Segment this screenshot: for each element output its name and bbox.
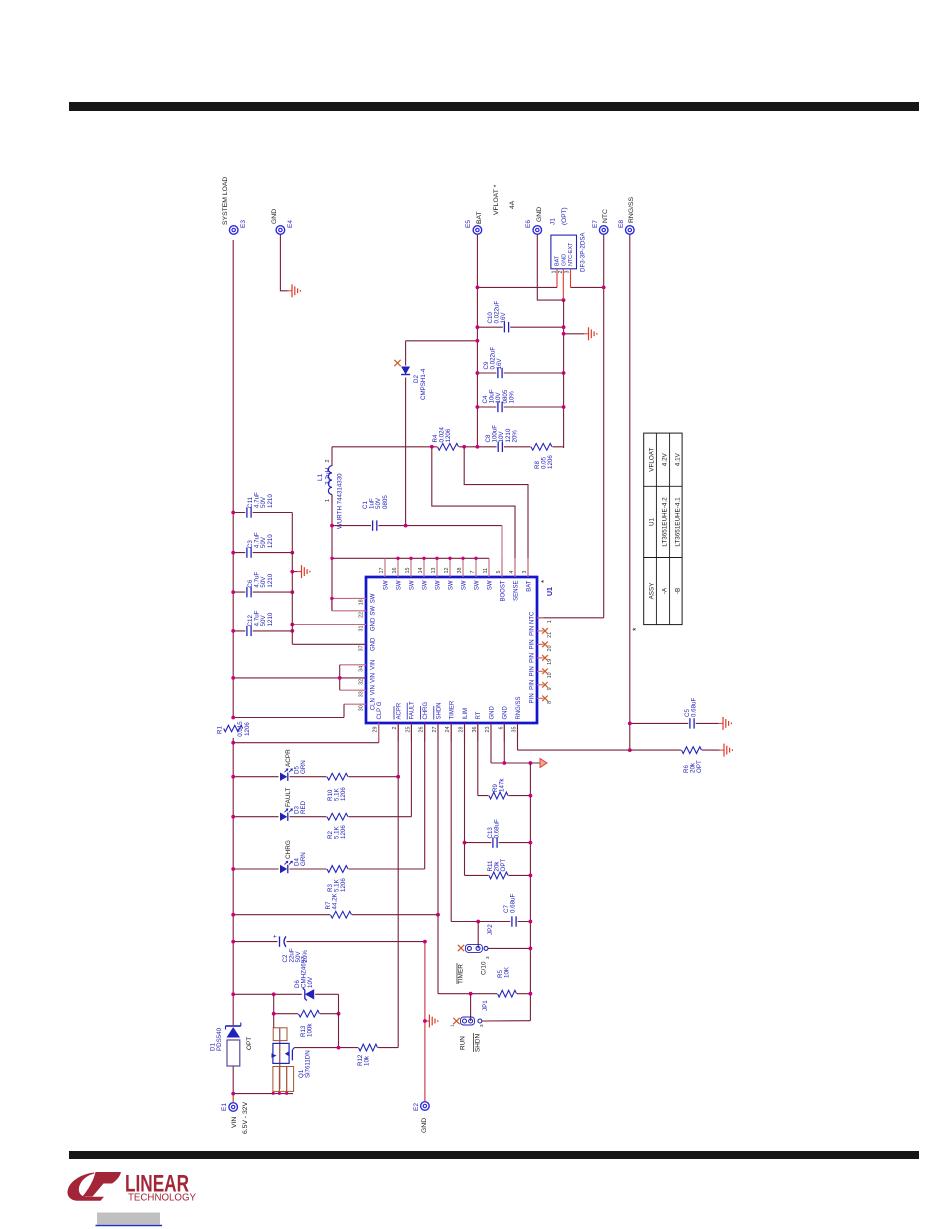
svg-text:PIN: PIN	[530, 666, 536, 676]
jumper JP2	[477, 922, 479, 949]
svg-text:+: +	[273, 934, 279, 938]
svg-text:GND: GND	[489, 706, 495, 720]
svg-text:4.2V: 4.2V	[662, 452, 669, 466]
svg-text:44.2K: 44.2K	[332, 892, 339, 909]
wire SW pin 12 stub	[449, 558, 451, 577]
wire SW pin 17 stub	[384, 558, 386, 577]
svg-text:1206: 1206	[340, 878, 347, 892]
wire R13/D6 bottom link	[338, 994, 340, 1047]
wire BOOST route	[501, 526, 503, 577]
wire SW pin 38 stub	[462, 558, 464, 577]
wire E4 to ground	[280, 234, 287, 291]
svg-text:5: 5	[496, 571, 502, 574]
ground at C5	[719, 722, 724, 724]
resistor R11	[465, 874, 531, 876]
capacitor C10	[477, 326, 563, 328]
wire input gnd rail	[291, 513, 293, 645]
wire SW node	[331, 495, 333, 611]
capacitor C7	[451, 921, 530, 923]
no-connect pin 9	[537, 684, 544, 686]
terminal E7 NTC	[599, 226, 608, 235]
wire SW pins 18/22	[331, 598, 333, 610]
svg-text:1206: 1206	[244, 722, 251, 736]
resistor R8	[531, 442, 553, 451]
svg-text:LT3651EUHE-4.1: LT3651EUHE-4.1	[675, 497, 682, 547]
svg-text:*: *	[540, 580, 549, 583]
svg-text:CHRG: CHRG	[423, 702, 429, 720]
svg-text:38: 38	[457, 568, 463, 574]
resistor R1	[223, 724, 243, 732]
svg-text:SW: SW	[383, 580, 389, 590]
svg-text:E5: E5	[465, 220, 472, 228]
svg-text:SW: SW	[487, 580, 493, 590]
svg-text:Si7611DN: Si7611DN	[305, 1050, 312, 1078]
svg-text:1206: 1206	[340, 787, 347, 801]
svg-text:RUN: RUN	[460, 1036, 467, 1050]
svg-text:10%: 10%	[508, 391, 515, 404]
svg-text:30: 30	[359, 705, 365, 711]
wire BAT pin route	[464, 447, 528, 577]
LED D4 / resistor R3 CHRG branch	[233, 868, 425, 870]
logo LT mark	[67, 1172, 121, 1201]
svg-text:GND: GND	[503, 706, 509, 720]
no-connect X on JP2	[458, 945, 464, 951]
svg-text:PIN: PIN	[530, 693, 536, 703]
wire CHRG net	[424, 723, 426, 869]
terminal E4 GND	[276, 226, 285, 235]
svg-text:32: 32	[359, 679, 365, 685]
svg-text:27: 27	[432, 727, 438, 733]
svg-text:25: 25	[405, 727, 411, 733]
svg-text:20: 20	[547, 645, 553, 651]
svg-text:R1: R1	[217, 725, 224, 733]
wire CLN pin 30	[344, 703, 366, 705]
svg-text:SYSTEM LOAD: SYSTEM LOAD	[222, 177, 229, 225]
capacitor C3	[233, 552, 292, 554]
svg-text:SW: SW	[409, 580, 415, 590]
ground on E2 rail	[425, 1020, 430, 1022]
no-connect X on D2	[394, 360, 400, 366]
svg-text:10k: 10k	[364, 1055, 371, 1066]
inductor L1	[331, 447, 333, 466]
svg-text:E2: E2	[413, 1103, 420, 1111]
svg-text:(OPT): (OPT)	[561, 207, 568, 225]
svg-text:RNG/SS: RNG/SS	[628, 196, 635, 223]
svg-text:22: 22	[359, 612, 365, 618]
svg-text:RT: RT	[476, 711, 482, 719]
wire ILIM net	[464, 723, 466, 875]
svg-text:0.68uF: 0.68uF	[691, 698, 698, 717]
svg-text:10V: 10V	[307, 976, 314, 988]
ground at R6	[720, 749, 725, 751]
svg-text:C/10: C/10	[481, 961, 488, 975]
svg-text:20%: 20%	[511, 430, 518, 443]
connector J1 DF3-3P-2DSA	[551, 235, 577, 269]
svg-text:8: 8	[547, 701, 553, 704]
no-connect pin 19	[537, 657, 544, 659]
capacitor C4	[477, 406, 563, 408]
svg-text:RED: RED	[300, 800, 307, 814]
wire SW bus	[332, 557, 489, 559]
resistor R4	[437, 442, 459, 451]
svg-text:23: 23	[485, 727, 491, 733]
svg-text:GRN: GRN	[300, 852, 307, 866]
svg-text:U1: U1	[648, 517, 655, 526]
svg-text:OPT: OPT	[500, 859, 507, 872]
svg-text:E8: E8	[618, 220, 625, 228]
wire TIMER net	[450, 723, 452, 922]
svg-text:1206: 1206	[547, 455, 554, 469]
ground at E4	[288, 290, 293, 292]
svg-text:CHRG: CHRG	[285, 840, 292, 859]
svg-text:GND: GND	[561, 254, 567, 266]
svg-text:E1: E1	[221, 1103, 228, 1111]
svg-text:1206: 1206	[340, 825, 347, 839]
svg-text:LT3651EUHE-4.2: LT3651EUHE-4.2	[662, 497, 669, 547]
svg-text:2: 2	[325, 460, 331, 463]
node BAT rail junction	[476, 445, 480, 449]
svg-text:GND: GND	[421, 1118, 428, 1133]
svg-text:VFLOAT: VFLOAT	[648, 448, 655, 472]
svg-text:13: 13	[431, 568, 437, 574]
svg-text:16V: 16V	[496, 358, 503, 370]
svg-text:31: 31	[359, 626, 365, 632]
wire VIN pins 34/32/33	[340, 664, 366, 666]
svg-text:GND: GND	[371, 637, 377, 651]
no-connect X on JP1	[453, 1018, 459, 1024]
wire SW pin 7 stub	[475, 558, 477, 577]
wire SENSE route	[432, 447, 515, 577]
svg-text:VIN: VIN	[231, 1117, 238, 1128]
svg-text:J1: J1	[550, 218, 557, 225]
svg-text:GND: GND	[371, 617, 377, 631]
svg-text:ACPR: ACPR	[285, 749, 292, 767]
svg-text:SW: SW	[435, 580, 441, 590]
svg-text:3.3uH: 3.3uH	[325, 467, 332, 485]
svg-text:BAT: BAT	[555, 255, 561, 266]
capacitor C8	[497, 441, 504, 453]
terminal E2 GND	[421, 1102, 430, 1111]
svg-text:PIN: PIN	[530, 626, 536, 636]
svg-text:BOOST: BOOST	[500, 580, 506, 601]
svg-text:TECHNOLOGY: TECHNOLOGY	[128, 1193, 196, 1204]
svg-text:DF3-3P-2DSA: DF3-3P-2DSA	[580, 232, 587, 272]
svg-text:VIN: VIN	[371, 660, 377, 670]
wire GND pin 37	[292, 643, 366, 645]
svg-text:9: 9	[547, 687, 553, 690]
svg-text:3: 3	[479, 1024, 484, 1027]
resistor R12 gate	[294, 1047, 398, 1049]
svg-text:FAULT: FAULT	[285, 787, 292, 807]
wire CLP pin 29	[378, 723, 380, 743]
svg-text:CMPSH1-4: CMPSH1-4	[420, 368, 427, 400]
capacitor C12	[233, 630, 292, 632]
svg-text:34: 34	[359, 666, 365, 672]
svg-text:SW: SW	[448, 580, 454, 590]
diode D2 boost	[405, 341, 407, 526]
svg-text:ACPR: ACPR	[397, 702, 403, 719]
svg-text:1: 1	[547, 620, 553, 623]
svg-text:FAULT: FAULT	[410, 701, 416, 720]
wire Q1 drain link	[273, 1026, 275, 1028]
wire FAULT net	[410, 723, 412, 817]
svg-text:SW: SW	[371, 606, 377, 616]
capacitor C2	[233, 941, 425, 943]
svg-text:16: 16	[392, 568, 398, 574]
svg-text:VIN: VIN	[371, 685, 377, 695]
svg-text:TIMER: TIMER	[450, 700, 456, 719]
svg-text:E7: E7	[592, 220, 599, 228]
terminal E8 RNG/SS	[626, 226, 635, 235]
wire SHDN net	[437, 723, 439, 994]
svg-text:GND: GND	[271, 209, 278, 224]
wire J1 pin3 NTC-EXT	[570, 269, 572, 288]
terminal E5 BAT	[473, 226, 482, 235]
terminal E1 VIN	[229, 1103, 238, 1112]
svg-text:4: 4	[509, 571, 515, 574]
no-connect pin 21	[537, 630, 544, 632]
svg-text:19: 19	[547, 659, 553, 665]
svg-text:0805: 0805	[382, 495, 389, 509]
svg-text:WURTH 744314330: WURTH 744314330	[337, 473, 344, 529]
svg-text:1: 1	[450, 1024, 455, 1027]
svg-text:24: 24	[445, 727, 451, 733]
svg-text:OPT: OPT	[696, 760, 703, 773]
svg-text:PIN: PIN	[530, 639, 536, 649]
LED D3 / resistor R2 FAULT branch	[233, 816, 411, 818]
jumper JP1	[470, 994, 472, 1021]
svg-text:PIN: PIN	[530, 653, 536, 663]
wire SW pin 16 stub	[397, 558, 399, 577]
svg-text:6.5V - 32V: 6.5V - 32V	[242, 1101, 249, 1134]
svg-text:SW: SW	[422, 580, 428, 590]
wire Q1 source rail	[233, 1093, 293, 1095]
wire BAT rail	[476, 234, 478, 448]
svg-text:E3: E3	[240, 220, 247, 228]
svg-text:1210: 1210	[267, 494, 274, 508]
wire ACPR net	[397, 723, 399, 1048]
logo LINEAR text	[125, 1171, 196, 1204]
wire VIN/system-load rail	[232, 1066, 234, 1103]
wire SW pin 15 stub	[410, 558, 412, 577]
capacitor C5	[630, 722, 719, 724]
svg-text:L1: L1	[317, 473, 324, 481]
capacitor C13	[465, 842, 531, 844]
svg-text:12: 12	[444, 568, 450, 574]
capacitor C9	[477, 372, 563, 374]
svg-text:0.68uF: 0.68uF	[494, 819, 501, 838]
ground on gnd column	[564, 333, 584, 335]
svg-text:-A: -A	[662, 587, 669, 594]
capacitor C1	[332, 525, 502, 527]
svg-text:NTC: NTC	[530, 611, 536, 624]
svg-text:14: 14	[418, 568, 424, 574]
svg-text:SW: SW	[474, 580, 480, 590]
svg-text:JP2: JP2	[487, 924, 494, 935]
top rule bar	[69, 102, 919, 111]
svg-text:CLP G: CLP G	[377, 701, 383, 719]
svg-text:18: 18	[359, 599, 365, 605]
wire SW pin 13 stub	[436, 558, 438, 577]
svg-text:U1: U1	[547, 587, 554, 596]
svg-text:NTC: NTC	[602, 209, 609, 223]
svg-text:15: 15	[405, 568, 411, 574]
svg-text:147k: 147k	[499, 778, 506, 792]
wire ground column (BAT caps)	[563, 300, 565, 448]
svg-text:NTC-EXT: NTC-EXT	[568, 242, 574, 266]
svg-text:21: 21	[547, 632, 553, 638]
LED D5 / resistor R10 ACPR branch	[233, 776, 398, 778]
svg-text:VIN: VIN	[371, 673, 377, 683]
wire GND pins 23/6	[490, 723, 492, 763]
wire SW pin 14 stub	[423, 558, 425, 577]
pin stubs shading	[378, 723, 380, 742]
wire E6 to gnd column	[537, 234, 563, 300]
no-connect pin 20	[537, 643, 544, 645]
svg-text:D2: D2	[413, 375, 420, 383]
svg-text:E4: E4	[287, 220, 294, 228]
wire J1 pin1 BAT	[556, 269, 558, 288]
wire RNG/SS net	[517, 723, 519, 750]
capacitor C11	[233, 512, 292, 514]
svg-text:4A: 4A	[509, 200, 516, 209]
svg-text:CLN: CLN	[371, 698, 377, 710]
svg-text:26: 26	[419, 727, 425, 733]
svg-text:TIMER: TIMER	[458, 964, 465, 984]
wire lower gnd rail	[529, 763, 531, 1021]
svg-text:PIN: PIN	[530, 680, 536, 690]
resistor R5	[438, 993, 530, 995]
svg-text:36: 36	[472, 727, 478, 733]
svg-text:ASSY: ASSY	[648, 582, 655, 600]
wire E7 NTC rail	[603, 234, 605, 618]
transistor Q1 Si7611DN	[279, 1028, 281, 1089]
diode D6 zener	[233, 993, 338, 995]
svg-text:10K: 10K	[504, 966, 511, 978]
svg-text:VFLOAT *: VFLOAT *	[493, 184, 500, 215]
ground on input gnd rail	[292, 571, 297, 573]
diode D1 PDS540	[226, 1025, 241, 1039]
svg-text:2: 2	[392, 727, 398, 730]
svg-text:GRN: GRN	[300, 760, 307, 774]
svg-text:*: *	[631, 627, 641, 631]
wire SW pin 11 stub	[488, 558, 490, 577]
svg-text:4.1V: 4.1V	[675, 452, 682, 466]
svg-text:OPT: OPT	[246, 1037, 253, 1050]
svg-text:1206: 1206	[445, 428, 452, 442]
wire NTC pin	[537, 617, 604, 619]
svg-text:ILIM: ILIM	[463, 708, 469, 720]
svg-text:SW: SW	[396, 580, 402, 590]
svg-text:0.68uF: 0.68uF	[510, 894, 517, 913]
svg-text:BAT: BAT	[526, 580, 532, 592]
resistor R9	[478, 795, 531, 797]
svg-text:3: 3	[485, 956, 490, 959]
capacitor C6	[233, 591, 292, 593]
svg-text:PDS540: PDS540	[216, 1027, 223, 1051]
svg-text:6: 6	[498, 727, 504, 730]
wire D6/R13 left link	[273, 994, 275, 1026]
svg-text:3: 3	[565, 271, 571, 274]
svg-text:28: 28	[459, 727, 465, 733]
wire GND pin 31	[292, 624, 366, 626]
svg-text:10: 10	[547, 672, 553, 678]
wire J1 pin2 GND	[562, 269, 564, 300]
svg-text:3: 3	[522, 571, 528, 574]
resistor R13	[274, 1013, 339, 1015]
no-connect pin 10	[537, 670, 544, 672]
IC U1 LT3651 body	[366, 577, 537, 723]
svg-text:16V: 16V	[500, 312, 507, 324]
ground arrow	[540, 759, 547, 768]
svg-text:33: 33	[359, 691, 365, 697]
terminal E3 SYSTEM LOAD	[229, 226, 238, 235]
wire R4/C8/R8 branch	[332, 446, 564, 448]
wire RT net	[477, 723, 479, 796]
bottom rule bar	[69, 1151, 919, 1159]
svg-text:SHDN: SHDN	[436, 702, 442, 719]
svg-text:E6: E6	[525, 220, 532, 228]
svg-text:35: 35	[512, 727, 518, 733]
svg-text:37: 37	[359, 645, 365, 651]
no-connect pin 8	[537, 697, 544, 699]
svg-text:17: 17	[379, 568, 385, 574]
svg-text:1: 1	[325, 499, 331, 502]
svg-text:29: 29	[373, 727, 379, 733]
link box	[96, 1213, 163, 1226]
svg-text:100k: 100k	[307, 1023, 314, 1037]
table assembly options	[644, 433, 682, 625]
wire E2 ground rail	[424, 942, 426, 1102]
svg-text:SW: SW	[461, 580, 467, 590]
terminal E6 GND	[533, 226, 542, 235]
svg-text:SW: SW	[371, 593, 377, 603]
svg-text:1210: 1210	[267, 612, 274, 626]
svg-text:BAT: BAT	[476, 211, 483, 224]
svg-text:7: 7	[470, 571, 476, 574]
svg-text:JP1: JP1	[482, 1000, 489, 1011]
svg-text:SHDN: SHDN	[475, 1034, 482, 1052]
svg-text:-B: -B	[675, 588, 682, 594]
svg-text:1210: 1210	[267, 534, 274, 548]
svg-text:11: 11	[483, 568, 489, 574]
svg-text:RNG/SS: RNG/SS	[516, 696, 522, 719]
resistor R7	[233, 914, 438, 916]
resistor R6	[630, 749, 720, 751]
svg-text:SENSE: SENSE	[513, 581, 519, 601]
svg-text:1210: 1210	[267, 573, 274, 587]
svg-text:GND: GND	[536, 207, 543, 222]
wire E8 RNG/SS rail	[629, 234, 631, 750]
